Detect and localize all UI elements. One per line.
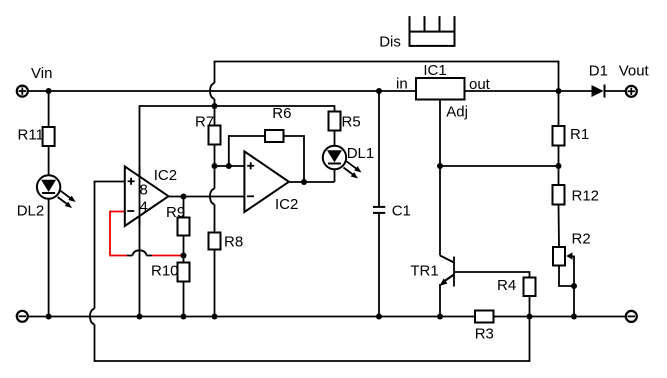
svg-text:R5: R5	[342, 114, 361, 131]
svg-text:DL2: DL2	[17, 203, 45, 220]
svg-text:R12: R12	[572, 188, 600, 205]
svg-text:R3: R3	[475, 326, 494, 343]
svg-text:R6: R6	[272, 105, 291, 122]
svg-text:C1: C1	[392, 203, 411, 220]
svg-text:D1: D1	[589, 63, 608, 80]
svg-text:Vin: Vin	[31, 65, 52, 82]
svg-text:Vout: Vout	[619, 63, 650, 80]
svg-text:R8: R8	[224, 234, 243, 251]
svg-text:IC1: IC1	[423, 62, 446, 79]
svg-text:Adj: Adj	[446, 103, 468, 120]
svg-text:R2: R2	[572, 231, 591, 248]
svg-text:R7: R7	[195, 114, 214, 131]
svg-text:R10: R10	[151, 263, 179, 280]
svg-text:in: in	[396, 76, 408, 93]
svg-text:IC2: IC2	[154, 167, 177, 184]
svg-text:8: 8	[140, 182, 148, 199]
svg-text:out: out	[469, 76, 491, 93]
svg-text:R4: R4	[497, 277, 516, 294]
svg-text:DL1: DL1	[347, 145, 375, 162]
svg-text:IC2: IC2	[275, 196, 298, 213]
svg-text:Dis: Dis	[379, 34, 401, 51]
svg-text:R11: R11	[18, 127, 44, 144]
svg-text:R9: R9	[166, 204, 185, 221]
svg-text:TR1: TR1	[410, 263, 438, 280]
svg-text:4: 4	[140, 198, 148, 215]
svg-text:R1: R1	[570, 126, 589, 143]
